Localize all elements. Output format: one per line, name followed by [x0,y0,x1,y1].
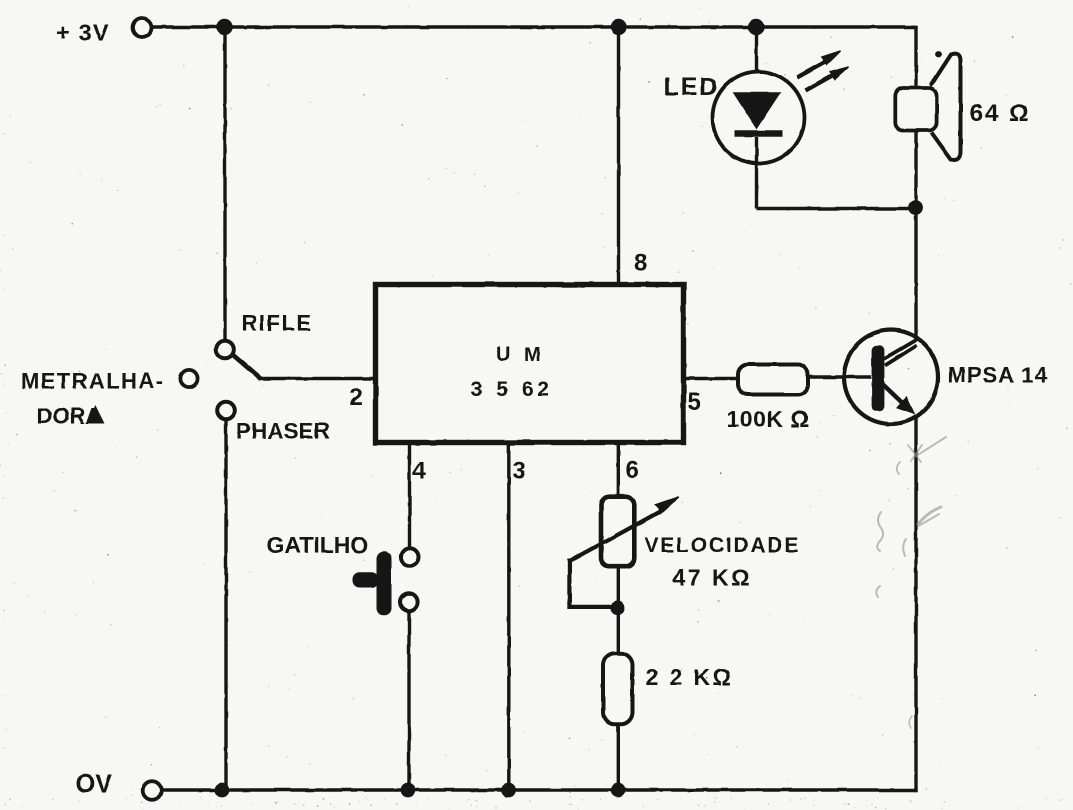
LED emission arrow 1 [797,51,841,78]
junction top-left [216,19,232,35]
svg-text:2 2 KΩ: 2 2 KΩ [646,664,734,690]
svg-text:LED: LED [664,73,720,101]
junction right rail [908,200,923,215]
wire LED bottom [755,137,758,209]
speaker dot [935,51,942,58]
svg-text:8: 8 [634,250,647,277]
potentiometer wiper tail wire [569,559,614,607]
terminal METRALHADORA [180,370,197,387]
wire pin5 to resistor [684,377,738,381]
wire pin6 [617,443,620,499]
wire pin8 [617,27,620,284]
junction pin8 top [610,19,626,35]
switch arm [233,355,261,379]
svg-text:U M: U M [496,344,545,366]
LED triangle [735,93,780,127]
transistor emitter arrowhead [897,397,914,413]
pushbutton S2 plunger [353,552,392,616]
label DORA [37,404,105,429]
LED emission arrow 2 [806,67,850,91]
svg-text:RIFLE: RIFLE [242,311,313,336]
junction bottom pin6 [611,783,626,798]
junction LED top [748,19,764,35]
wire pot to 22K [617,565,620,654]
speaker cone [931,54,961,160]
svg-text:3 5 62: 3 5 62 [471,378,553,401]
svg-text:METRALHA-: METRALHA- [21,369,164,394]
transistor emitter line [882,384,904,405]
junction bottom pin4 [401,783,416,798]
transistor base bar [872,345,885,411]
LED cathode bar [735,130,783,137]
wire left lower vertical [224,420,227,791]
terminal +3V [133,18,152,37]
svg-text:4: 4 [413,458,427,485]
svg-text:5: 5 [688,389,701,416]
wire LED top [755,27,758,95]
junction pot wiper [610,601,625,616]
junction bottom left [215,783,230,798]
wire pin3 [507,443,510,790]
wire right rail lower [914,417,917,792]
svg-text:6: 6 [626,457,639,484]
svg-text:100K Ω: 100K Ω [727,406,810,432]
svg-text:MPSA 14: MPSA 14 [948,363,1048,388]
potentiometer VR1 body [601,497,634,567]
switch contact RIFLE [216,341,234,359]
svg-text:3: 3 [513,458,526,485]
wire right rail upper [914,25,917,90]
wire bottom rail [161,788,918,792]
op IC U1 UM3562 box [376,285,684,443]
svg-text:OV: OV [76,771,113,799]
svg-text:47 KΩ: 47 KΩ [673,565,753,591]
svg-text:+ 3V: + 3V [56,20,110,46]
wire top rail [152,25,918,29]
speaker LS1 box [895,88,936,131]
svg-text:VELOCIDADE: VELOCIDADE [645,534,801,557]
wire LED to right rail [757,207,917,210]
pushbutton contact top [401,548,419,566]
switch contact PHASER [217,402,235,420]
wire right rail speaker to junction [914,129,917,209]
transistor collector line [884,339,918,366]
resistor R1 100K body [738,365,808,395]
wire resistor to base [808,375,871,379]
resistor R2 22K body [603,653,633,724]
wire left vertical to switch [223,27,226,340]
wire pin2 [258,377,375,381]
LED D1 circle [713,72,805,164]
wire pin4 lower [407,611,410,790]
wire right rail to transistor [914,208,917,340]
svg-text:GATILHO: GATILHO [267,532,369,558]
svg-text:2: 2 [350,384,363,411]
svg-text:64 Ω: 64 Ω [970,100,1031,127]
junction bottom pin3 [501,783,516,798]
svg-text:PHASER: PHASER [236,419,330,444]
wire pin4 upper [408,443,411,549]
pushbutton contact bottom [400,593,418,611]
potentiometer arrow [569,497,678,561]
wire 22K to rail [617,724,620,790]
transistor Q1 circle [844,330,938,424]
terminal 0V [143,781,162,800]
